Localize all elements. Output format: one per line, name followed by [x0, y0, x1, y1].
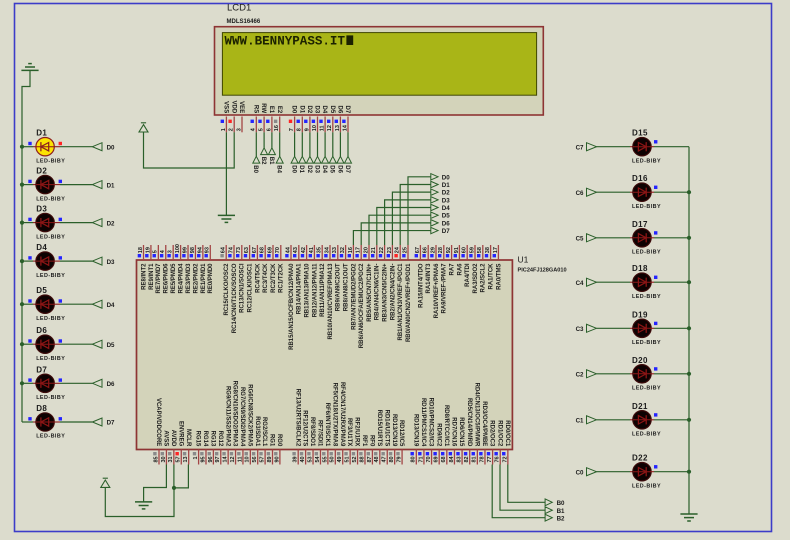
junction node left bus row D2	[20, 183, 24, 187]
svg-text:94: 94	[197, 246, 203, 253]
wire LED D2 to terminal D1	[54, 184, 60, 186]
terminal D4 (cascade arrow)	[431, 204, 438, 210]
right LED cathode bus wire	[688, 147, 690, 514]
svg-text:5: 5	[153, 250, 159, 253]
terminal D3 (left)	[92, 257, 102, 265]
svg-text:RG9/CN11/SS2/PMA2: RG9/CN11/SS2/PMA2	[224, 386, 230, 447]
svg-text:MCLR: MCLR	[185, 429, 191, 447]
svg-text:D5: D5	[442, 213, 450, 220]
svg-text:71: 71	[418, 456, 424, 462]
wire terminal C2 to LED D20	[597, 373, 631, 375]
svg-text:RA7: RA7	[450, 263, 456, 276]
terminal D1 (left)	[92, 181, 102, 189]
LCD cursor block	[346, 35, 353, 45]
wire LCD data pin to terminal D2	[309, 132, 311, 156]
wire +V to AVDD/MCLR net	[105, 487, 174, 516]
svg-text:D20: D20	[632, 356, 648, 365]
svg-text:D3: D3	[107, 259, 115, 266]
svg-text:RD12/IC5: RD12/IC5	[398, 420, 404, 447]
junction node right bus row D17	[687, 236, 691, 240]
svg-text:80: 80	[389, 456, 395, 462]
svg-text:D3: D3	[314, 106, 320, 114]
wire bus to LED D5	[22, 303, 33, 305]
junction node AVDD net	[172, 486, 176, 490]
svg-text:RB15/AN15/OCFB/CN12/PMA0: RB15/AN15/OCFB/CN12/PMA0	[289, 263, 295, 350]
svg-text:RE6/PMD6: RE6/PMD6	[164, 263, 170, 294]
svg-text:RG3/SDA1: RG3/SDA1	[254, 416, 260, 447]
terminal D7 (LCD data)	[345, 156, 352, 163]
svg-text:69: 69	[434, 456, 440, 462]
svg-text:9: 9	[304, 128, 310, 131]
svg-text:C1: C1	[576, 418, 584, 425]
svg-text:88: 88	[359, 456, 365, 462]
wire U1 pin to terminal D2 (cascade)	[392, 192, 430, 245]
svg-text:13: 13	[335, 125, 341, 131]
svg-text:23: 23	[387, 247, 393, 253]
junction node right bus row D22	[687, 470, 691, 474]
svg-text:RD6/CN15: RD6/CN15	[458, 417, 464, 447]
wire LED D15 to bus	[651, 146, 654, 148]
svg-text:73: 73	[236, 247, 242, 253]
svg-text:RE7/PMD7: RE7/PMD7	[156, 263, 162, 294]
svg-text:LED-BIBY: LED-BIBY	[632, 204, 661, 210]
wire U1 pin to terminal B0	[508, 465, 545, 503]
svg-text:10: 10	[312, 125, 318, 131]
terminal D7 (cascade arrow)	[431, 227, 438, 233]
junction node right bus row D16	[687, 190, 691, 194]
terminal C1 (right)	[587, 416, 597, 424]
wire LCD data pin to terminal D7	[347, 132, 349, 156]
svg-text:RC14/CN0/T1CK/SOSCO: RC14/CN0/T1CK/SOSCO	[232, 263, 238, 333]
svg-text:69: 69	[267, 247, 273, 253]
wire LED D7 to terminal D6	[54, 382, 60, 384]
svg-text:89: 89	[267, 456, 273, 462]
svg-text:RD5/CN14/PMRD: RD5/CN14/PMRD	[466, 398, 472, 447]
junction node left bus row D7	[20, 381, 24, 385]
svg-text:B1: B1	[268, 157, 274, 165]
svg-text:RA2/SCL2: RA2/SCL2	[481, 263, 487, 293]
svg-text:RB5/AN5/CN7/C1IN+: RB5/AN5/CN7/C1IN+	[367, 263, 373, 322]
svg-text:70: 70	[426, 456, 432, 462]
svg-text:RB6/AN6/OCFA/EMUC2/PGC2: RB6/AN6/OCFA/EMUC2/PGC2	[359, 263, 365, 348]
U1 bottom pin stubs, squares, numbers, names	[158, 450, 160, 465]
svg-text:64: 64	[221, 246, 227, 253]
svg-text:35: 35	[317, 247, 323, 253]
svg-text:RD1/OC2: RD1/OC2	[496, 420, 502, 447]
terminal D1 (LCD data)	[299, 156, 306, 163]
svg-text:B4: B4	[276, 165, 282, 173]
svg-text:RF13/U2RTS/BCLK2: RF13/U2RTS/BCLK2	[294, 389, 300, 447]
svg-text:B1: B1	[557, 508, 565, 515]
terminal C5 (right)	[587, 234, 597, 242]
svg-text:RF12/U2CTS: RF12/U2CTS	[302, 410, 308, 446]
svg-text:D3: D3	[36, 205, 47, 214]
svg-text:17: 17	[493, 247, 499, 253]
svg-text:RB9/AN9/C2OUT: RB9/AN9/C2OUT	[336, 263, 342, 311]
svg-text:38: 38	[485, 247, 491, 253]
wire LCD pin to terminal B0	[255, 132, 257, 156]
svg-text:D16: D16	[632, 174, 648, 183]
terminal D5 (LCD data)	[329, 156, 336, 163]
svg-text:51: 51	[345, 456, 351, 462]
svg-text:RC4/T5CK: RC4/T5CK	[255, 263, 261, 293]
wire U1 pin to terminal D1 (cascade)	[400, 184, 431, 245]
svg-text:1: 1	[221, 128, 227, 131]
wire LED D22 to bus	[651, 471, 654, 473]
terminal D6 (LCD data)	[337, 156, 344, 163]
terminal D6 (left)	[92, 379, 102, 387]
wire ground to LED anode bus	[22, 70, 30, 146]
svg-text:70: 70	[275, 247, 281, 253]
svg-text:RG7/CN9/SDI2/PMA4: RG7/CN9/SDI2/PMA4	[239, 387, 245, 447]
power terminal +V (LCD VDD)	[141, 122, 146, 124]
svg-text:RC15/CLKO/OSC2: RC15/CLKO/OSC2	[224, 263, 230, 316]
svg-text:U1: U1	[518, 255, 529, 265]
svg-text:1: 1	[193, 456, 199, 459]
svg-text:2: 2	[229, 128, 235, 131]
svg-text:92: 92	[446, 247, 452, 253]
wire LCD data pin to terminal D4	[324, 132, 326, 156]
svg-text:RB1/AN1/CN3/VREF-/PGC1: RB1/AN1/CN3/VREF-/PGC1	[398, 263, 404, 341]
svg-text:LED-BIBY: LED-BIBY	[36, 158, 65, 164]
terminal D6 (cascade arrow)	[431, 220, 438, 226]
svg-text:RB7/AN7/EMUD2/PGD2: RB7/AN7/EMUD2/PGD2	[351, 263, 357, 330]
svg-text:42: 42	[301, 247, 307, 253]
wire terminal C6 to LED D16	[597, 191, 631, 193]
wire terminal C5 to LED D17	[597, 237, 631, 239]
wire LED D6 to terminal D5	[54, 343, 60, 345]
svg-text:RF7/SDI1: RF7/SDI1	[317, 420, 323, 447]
terminal C6 (right)	[587, 188, 597, 196]
wire LCD pin to terminal B2	[263, 132, 265, 148]
power terminal +V (U1 supply)	[103, 477, 108, 479]
wire LED D3 to terminal D2	[54, 222, 60, 224]
svg-text:RD13/CN19: RD13/CN19	[391, 414, 397, 447]
svg-text:RF5/CN18/U2TX/PMA8: RF5/CN18/U2TX/PMA8	[331, 383, 337, 447]
svg-text:RD15/U1RTS: RD15/U1RTS	[376, 410, 382, 447]
wire AVSS pin to ground	[144, 465, 167, 502]
svg-text:79: 79	[396, 456, 402, 462]
svg-text:43: 43	[293, 247, 299, 253]
svg-text:D7: D7	[344, 165, 350, 173]
svg-text:D1: D1	[36, 129, 47, 138]
wire LED D19 to bus	[651, 327, 654, 329]
wire bus to LED D1	[22, 146, 33, 148]
svg-text:76: 76	[495, 456, 501, 462]
svg-text:LED-BIBY: LED-BIBY	[36, 356, 65, 362]
wire terminal C7 to LED D15	[597, 146, 631, 148]
svg-text:63: 63	[244, 247, 250, 253]
junction node left bus row D4	[20, 259, 24, 263]
svg-text:RA14/INT3: RA14/INT3	[426, 263, 432, 294]
wire terminal C1 to LED D21	[597, 419, 631, 421]
svg-text:D18: D18	[632, 264, 648, 273]
svg-text:RE5/PMD5: RE5/PMD5	[171, 263, 177, 294]
terminal D0 (left)	[92, 143, 102, 151]
svg-text:D5: D5	[36, 286, 47, 295]
svg-text:13: 13	[183, 456, 189, 462]
svg-text:LCD1: LCD1	[227, 2, 251, 13]
svg-text:D5: D5	[329, 106, 335, 114]
svg-text:E1: E1	[268, 106, 274, 114]
left LED anode bus wire	[21, 147, 23, 422]
svg-text:D5: D5	[107, 342, 115, 349]
svg-text:B0: B0	[557, 500, 565, 507]
svg-text:VEE: VEE	[238, 101, 244, 113]
svg-text:ENVREG: ENVREG	[177, 421, 183, 447]
svg-text:RA0/TMS: RA0/TMS	[496, 264, 502, 290]
wire LED D18 to bus	[651, 281, 654, 283]
svg-text:7: 7	[289, 128, 295, 131]
svg-text:RD3/OC4/PMBE: RD3/OC4/PMBE	[481, 401, 487, 446]
svg-text:D4: D4	[321, 165, 327, 173]
svg-text:MDLS16466: MDLS16466	[227, 19, 261, 25]
wire U1 pin to terminal B1	[500, 465, 545, 511]
wire U1 pin to terminal D6 (cascade)	[361, 223, 431, 245]
svg-text:LED-BIBY: LED-BIBY	[36, 434, 65, 440]
svg-text:D0: D0	[107, 144, 115, 151]
svg-text:19: 19	[145, 247, 151, 253]
terminal D1 (cascade arrow)	[431, 181, 438, 187]
svg-text:67: 67	[415, 247, 421, 253]
svg-text:RG14: RG14	[202, 431, 208, 447]
wire VSS to ground	[225, 132, 227, 215]
svg-text:E2: E2	[276, 106, 282, 114]
wire bus to LED D8	[22, 421, 33, 423]
svg-text:RF1: RF1	[361, 435, 367, 447]
svg-text:D7: D7	[344, 106, 350, 114]
svg-text:58: 58	[477, 247, 483, 253]
svg-text:85: 85	[153, 456, 159, 462]
wire LCD pin to terminal B1	[271, 132, 273, 148]
terminal D0 (LCD data)	[291, 156, 298, 163]
svg-text:RB8/AN8/C1OUT: RB8/AN8/C1OUT	[344, 263, 350, 311]
LCD pin stubs and numbers	[225, 117, 227, 133]
svg-text:66: 66	[423, 247, 429, 253]
LCD screen	[222, 33, 536, 96]
svg-text:72: 72	[502, 456, 508, 462]
svg-text:77: 77	[487, 456, 493, 462]
svg-text:D7: D7	[442, 228, 450, 235]
wire LED D21 to bus	[651, 419, 654, 421]
svg-text:RE4/PMD4: RE4/PMD4	[179, 263, 185, 294]
svg-text:LED-BIBY: LED-BIBY	[36, 196, 65, 202]
svg-text:D0: D0	[442, 174, 450, 181]
svg-text:D2: D2	[107, 220, 115, 227]
svg-text:D2: D2	[36, 167, 47, 176]
svg-text:D6: D6	[336, 165, 342, 173]
svg-text:C7: C7	[576, 144, 584, 151]
svg-text:RD9/IC2: RD9/IC2	[435, 423, 441, 447]
svg-text:D6: D6	[442, 220, 450, 227]
svg-text:RB2/AN2/CN4/C2IN-: RB2/AN2/CN4/C2IN-	[390, 264, 396, 321]
svg-text:100: 100	[175, 244, 181, 253]
svg-text:LED-BIBY: LED-BIBY	[632, 340, 661, 346]
svg-text:RG12: RG12	[217, 431, 223, 447]
terminal D4 (left)	[92, 300, 102, 308]
svg-text:D6: D6	[107, 381, 115, 388]
svg-text:96: 96	[208, 456, 214, 462]
svg-text:RW: RW	[260, 103, 266, 113]
svg-text:20: 20	[363, 247, 369, 253]
wire U1 pin to terminal D7 (cascade)	[353, 231, 430, 245]
terminal C0 (right)	[587, 468, 597, 476]
svg-text:C2: C2	[576, 372, 584, 379]
svg-text:21: 21	[371, 247, 377, 253]
terminal C3 (right)	[587, 324, 597, 332]
svg-text:RG1: RG1	[269, 434, 275, 447]
wire bus to LED D4	[22, 260, 33, 262]
svg-text:RE9/INT1: RE9/INT1	[149, 263, 155, 290]
svg-text:RA10/VREF+/PMA6: RA10/VREF+/PMA6	[434, 263, 440, 319]
svg-text:11: 11	[320, 125, 326, 131]
svg-text:49: 49	[337, 456, 343, 462]
svg-text:RE1/PMD1: RE1/PMD1	[201, 263, 207, 294]
svg-text:RG6/CN8/SCK2/PMA5: RG6/CN8/SCK2/PMA5	[246, 384, 252, 447]
wire terminal C4 to LED D18	[597, 281, 631, 283]
terminal D7 (left)	[92, 418, 102, 426]
svg-text:24: 24	[395, 246, 401, 253]
microcontroller U1 body	[137, 260, 513, 450]
wire LED D16 to bus	[651, 191, 654, 193]
svg-text:RA3/SDO2: RA3/SDO2	[473, 263, 479, 294]
ground (AVSS)	[135, 501, 152, 503]
svg-text:D19: D19	[632, 310, 648, 319]
wire LCD pin to terminal B4	[279, 132, 281, 156]
svg-text:68: 68	[260, 247, 266, 253]
svg-text:RS: RS	[252, 105, 258, 113]
U1 top pin stubs, squares, numbers, names	[143, 245, 145, 260]
svg-text:3: 3	[168, 250, 174, 253]
svg-text:C3: C3	[576, 326, 584, 333]
svg-text:RC3/T4CK: RC3/T4CK	[263, 263, 269, 293]
svg-text:VSS: VSS	[223, 101, 229, 113]
svg-text:22: 22	[379, 247, 385, 253]
svg-text:RB11/AN11/PMA12: RB11/AN11/PMA12	[320, 263, 326, 317]
svg-text:B0: B0	[252, 165, 258, 173]
ground (LCD VSS)	[218, 214, 235, 216]
svg-text:D6: D6	[36, 326, 47, 335]
terminal D2 (cascade arrow)	[431, 189, 438, 195]
svg-text:RD13/CN19: RD13/CN19	[412, 414, 418, 447]
svg-text:RB3/AN3/CN5/C2IN+: RB3/AN3/CN5/C2IN+	[383, 263, 389, 322]
svg-text:RA4/TDI: RA4/TDI	[465, 263, 471, 287]
svg-text:RD14/U1CTS: RD14/U1CTS	[383, 410, 389, 447]
svg-text:RD11/PMCS1/IC4: RD11/PMCS1/IC4	[420, 398, 426, 447]
svg-text:93: 93	[205, 247, 211, 253]
junction node right bus row D18	[687, 280, 691, 284]
svg-text:RD7/CN16: RD7/CN16	[451, 417, 457, 447]
svg-text:11: 11	[237, 456, 243, 462]
terminal C4 (right)	[587, 278, 597, 286]
wire VDD to +V	[144, 132, 235, 168]
terminal D5 (left)	[92, 340, 102, 348]
svg-text:83: 83	[456, 456, 462, 462]
svg-text:91: 91	[454, 247, 460, 253]
terminal C2 (right)	[587, 370, 597, 378]
svg-text:RG15: RG15	[195, 431, 201, 447]
svg-text:D6: D6	[337, 106, 343, 114]
svg-text:28: 28	[438, 247, 444, 253]
svg-text:RC12/CLKI/OSC1: RC12/CLKI/OSC1	[248, 263, 254, 313]
svg-text:LED-BIBY: LED-BIBY	[632, 386, 661, 392]
svg-text:50: 50	[330, 456, 336, 462]
svg-text:LED-BIBY: LED-BIBY	[632, 158, 661, 164]
svg-text:RA6: RA6	[457, 263, 463, 276]
svg-text:RE8/INT2: RE8/INT2	[141, 263, 147, 290]
svg-text:RC13/CN1/SOSCI: RC13/CN1/SOSCI	[240, 263, 246, 313]
svg-text:RB13/AN13/PMA10: RB13/AN13/PMA10	[305, 263, 311, 318]
svg-text:LED-BIBY: LED-BIBY	[36, 273, 65, 279]
svg-text:32: 32	[340, 247, 346, 253]
svg-text:56: 56	[252, 456, 258, 462]
svg-text:57: 57	[260, 456, 266, 462]
svg-text:67: 67	[252, 247, 258, 253]
svg-text:55: 55	[322, 456, 328, 462]
svg-text:B2: B2	[260, 157, 266, 165]
svg-text:99: 99	[182, 247, 188, 253]
svg-text:68: 68	[441, 456, 447, 462]
svg-text:RG8/CN10/SDO2/PMA3: RG8/CN10/SDO2/PMA3	[232, 381, 238, 447]
wire U1 pin to terminal D3 (cascade)	[385, 200, 431, 245]
junction node right bus row D19	[687, 326, 691, 330]
terminal B0 (bottom right)	[545, 499, 552, 506]
terminal D2 (LCD data)	[306, 156, 313, 163]
svg-text:54: 54	[315, 455, 321, 462]
svg-text:RF0: RF0	[369, 435, 375, 447]
svg-text:RF4/CN17/U2RX/PMA9: RF4/CN17/U2RX/PMA9	[339, 382, 345, 447]
svg-text:97: 97	[215, 456, 221, 462]
terminal B1 (bottom right)	[545, 507, 552, 514]
svg-text:PIC24FJ128GA010: PIC24FJ128GA010	[518, 268, 567, 274]
svg-text:RA15/INT4/TDO: RA15/INT4/TDO	[418, 263, 424, 308]
svg-text:44: 44	[285, 246, 291, 253]
svg-text:95: 95	[200, 456, 206, 462]
svg-text:8: 8	[297, 128, 303, 131]
terminal B1	[268, 148, 275, 155]
svg-text:RG2/SCL1: RG2/SCL1	[261, 417, 267, 447]
svg-text:98: 98	[190, 247, 196, 253]
svg-text:C0: C0	[576, 469, 584, 476]
svg-text:18: 18	[138, 247, 144, 253]
svg-text:57: 57	[176, 456, 182, 462]
svg-text:3: 3	[236, 128, 242, 131]
wire terminal C3 to LED D19	[597, 327, 631, 329]
junction node right bus row D21	[687, 418, 691, 422]
wire LED D5 to terminal D4	[54, 303, 60, 305]
svg-text:D0: D0	[291, 165, 297, 173]
junction node left bus row D3	[20, 221, 24, 225]
svg-text:RC2/T3CK: RC2/T3CK	[271, 263, 277, 293]
svg-text:D1: D1	[442, 182, 450, 189]
LCD LCD1 body	[215, 27, 544, 115]
svg-text:VCAP/VDDCORE: VCAP/VDDCORE	[155, 398, 161, 446]
svg-text:RB14/AN14/PMA1: RB14/AN14/PMA1	[297, 263, 303, 314]
svg-text:RG13: RG13	[209, 431, 215, 447]
svg-text:D4: D4	[107, 302, 115, 309]
svg-text:AVSS: AVSS	[163, 430, 169, 446]
svg-text:74: 74	[228, 246, 234, 253]
terminal B2 (bottom right)	[545, 514, 552, 521]
svg-text:LED-BIBY: LED-BIBY	[632, 294, 661, 300]
svg-text:D0: D0	[291, 106, 297, 114]
svg-text:AVDD: AVDD	[170, 430, 176, 447]
terminal C7 (right)	[587, 143, 597, 151]
terminal D4 (LCD data)	[322, 156, 329, 163]
ground (right LED bus)	[680, 513, 697, 515]
wire U1 pin to terminal D5 (cascade)	[369, 215, 431, 245]
svg-text:RB10/AN10/CVREF/PMA13: RB10/AN10/CVREF/PMA13	[328, 263, 334, 340]
